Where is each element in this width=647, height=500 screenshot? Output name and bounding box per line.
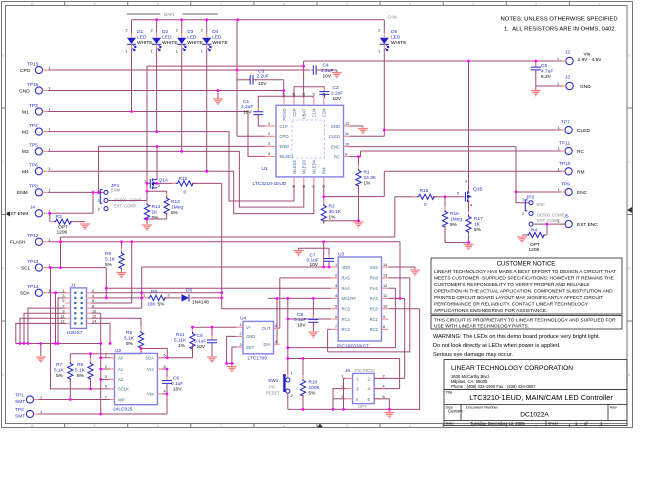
- svg-text:6: 6: [335, 315, 337, 319]
- wire TP1 to WP: [38, 399, 110, 401]
- svg-text:TP1: TP1: [15, 393, 24, 399]
- resistor R17: [468, 211, 470, 235]
- svg-text:EXT ENC: EXT ENC: [577, 222, 598, 228]
- svg-text:SMT: SMT: [15, 413, 25, 419]
- resistor R16 1Meg: [444, 197, 446, 210]
- wire Q1A to R12: [157, 182, 176, 184]
- svg-text:1%: 1%: [329, 215, 337, 221]
- wire RC to TP11: [361, 150, 566, 152]
- svg-text:WHITE: WHITE: [187, 40, 202, 46]
- ground at C5: [531, 91, 541, 96]
- svg-text:J6: J6: [345, 368, 350, 374]
- svg-text:SMT: SMT: [15, 399, 25, 405]
- wire J6 pin3: [333, 389, 346, 410]
- wire J6 pin2: [374, 377, 405, 379]
- svg-text:8: 8: [157, 2, 159, 6]
- svg-text:U1: U1: [262, 166, 268, 172]
- svg-text:J4: J4: [30, 205, 35, 211]
- wire ENM to U1 pin3: [99, 146, 266, 192]
- svg-text:17: 17: [282, 93, 286, 97]
- wire RA1: [389, 287, 396, 289]
- svg-text:TP5: TP5: [29, 143, 38, 149]
- wire C1 top to C1M: [258, 96, 313, 112]
- svg-text:0.1uF: 0.1uF: [171, 381, 183, 387]
- svg-text:1K: 1K: [152, 210, 159, 216]
- svg-text:U4: U4: [240, 316, 246, 322]
- wire RA2 to J6 pin2: [404, 298, 406, 378]
- svg-text:WHITE: WHITE: [391, 40, 406, 46]
- svg-text:M3: M3: [22, 149, 29, 155]
- wire J1 pin10 down to U2: [92, 312, 101, 314]
- ground on GND net: [213, 99, 223, 104]
- svg-text:LTC3210-1EUD: LTC3210-1EUD: [253, 181, 287, 187]
- svg-text:Date:: Date:: [446, 422, 455, 426]
- svg-text:LED: LED: [187, 35, 197, 41]
- svg-text:10V: 10V: [323, 74, 332, 80]
- ground at U4: [227, 367, 237, 372]
- svg-text:2: 2: [176, 29, 178, 33]
- wire net M2 to MLED2: [48, 132, 295, 201]
- svg-text:1206: 1206: [57, 230, 68, 236]
- svg-text:D1: D1: [137, 29, 143, 35]
- svg-text:TP3: TP3: [29, 103, 38, 109]
- svg-text:TP9: TP9: [561, 182, 570, 188]
- wire RC0 loop: [389, 309, 419, 410]
- svg-text:1: 1: [201, 50, 203, 54]
- svg-text:1N4148: 1N4148: [192, 300, 209, 306]
- svg-text:RA2: RA2: [370, 296, 379, 301]
- wire net FLASH: [48, 241, 132, 243]
- svg-text:6: 6: [105, 385, 107, 389]
- resistor R11 5.11K: [192, 327, 194, 332]
- wire Vin bus: [304, 60, 566, 62]
- wire R12 to RC5 riser: [221, 183, 223, 308]
- wire riser x287: [287, 298, 289, 374]
- capacitor C5 4.7uF: [535, 61, 537, 67]
- svg-text:2: 2: [335, 274, 337, 278]
- svg-text:GND: GND: [331, 124, 340, 129]
- wire D6 cathode: [192, 297, 222, 299]
- svg-text:1: 1: [335, 263, 337, 267]
- wire ENC: [350, 146, 517, 148]
- svg-text:11: 11: [345, 132, 349, 136]
- switch SW1 PIC RESET: [266, 372, 293, 399]
- wire SCL riser: [105, 268, 107, 298]
- LED D1: [127, 33, 136, 51]
- svg-text:7: 7: [220, 424, 222, 428]
- capacitor C7: [328, 255, 330, 266]
- svg-text:A1: A1: [118, 367, 124, 372]
- svg-text:CUSTOMER'S RESPONSIBILITY TO V: CUSTOMER'S RESPONSIBILITY TO VERIFY PROP…: [434, 282, 590, 288]
- wire J1 pin2 row: [92, 292, 222, 294]
- svg-text:R3: R3: [56, 214, 62, 220]
- wire JP2 pin3 to J5: [533, 223, 565, 225]
- svg-text:R8: R8: [151, 289, 157, 295]
- svg-text:8: 8: [157, 424, 159, 428]
- resistor R13: [166, 193, 168, 217]
- IC U1 LTC3210-1EUD: [253, 93, 350, 188]
- svg-text:1: 1: [558, 126, 560, 130]
- svg-text:4: 4: [164, 390, 166, 394]
- svg-text:10V: 10V: [197, 344, 206, 350]
- connector J3 GND: [557, 75, 591, 90]
- connector J2 Vin: [557, 50, 602, 65]
- wire CLED: [350, 135, 385, 137]
- title block: [444, 360, 627, 426]
- svg-text:2.9V - 4.5V: 2.9V - 4.5V: [578, 57, 603, 63]
- svg-text:TP11: TP11: [559, 141, 570, 147]
- resistor R15: [395, 196, 417, 198]
- svg-text:5%: 5%: [171, 210, 179, 216]
- svg-text:MEETS CUSTOMER -SUPPLIED SPECI: MEETS CUSTOMER -SUPPLIED SPECIFICATIONS;…: [434, 276, 614, 282]
- svg-text:2: 2: [240, 332, 242, 336]
- test point TP11 RC: [558, 141, 585, 155]
- svg-text:EXT COMP: EXT COMP: [537, 218, 560, 223]
- svg-text:10: 10: [345, 142, 349, 146]
- svg-text:Vss: Vss: [147, 392, 154, 397]
- svg-text:SDA: SDA: [145, 356, 154, 361]
- svg-text:1: 1: [48, 188, 50, 192]
- test point TP7 CLED: [558, 120, 591, 135]
- svg-text:1: 1: [40, 410, 42, 414]
- svg-text:R13: R13: [171, 199, 180, 205]
- svg-text:TP4: TP4: [29, 123, 38, 129]
- ground VSS: [410, 270, 420, 275]
- ground at C9: [207, 357, 217, 362]
- svg-text:ENM: ENM: [111, 188, 121, 193]
- svg-text:A0: A0: [118, 356, 124, 361]
- svg-text:8: 8: [164, 365, 166, 369]
- title block text: [446, 365, 617, 426]
- svg-text:2.2uF: 2.2uF: [241, 104, 253, 110]
- wire V+ rail: [193, 326, 237, 328]
- rail to R15: [61, 236, 395, 238]
- svg-text:R1: R1: [364, 170, 370, 176]
- wire D3 anode: [181, 20, 183, 34]
- svg-text:14: 14: [383, 263, 387, 267]
- svg-text:9: 9: [94, 424, 96, 428]
- svg-text:Phone : (408) 432-1900 Fax :: Phone : (408) 432-1900 Fax : (408) 434-0…: [451, 384, 536, 389]
- svg-text:5.1K: 5.1K: [75, 368, 86, 374]
- svg-text:4: 4: [383, 385, 385, 389]
- wire CPO riser: [236, 20, 238, 137]
- svg-text:C2P: C2P: [292, 108, 297, 116]
- wire net GND: [48, 90, 284, 92]
- svg-text:R11: R11: [176, 332, 185, 338]
- svg-text:1: 1: [557, 57, 559, 61]
- svg-text:3: 3: [335, 284, 337, 288]
- wire RA0 loop: [328, 278, 410, 352]
- svg-text:PIC: PIC: [269, 385, 276, 390]
- ground at R4: [517, 237, 527, 242]
- svg-text:1: 1: [558, 188, 560, 192]
- svg-text:6: 6: [383, 395, 385, 399]
- svg-text:2: 2: [378, 29, 380, 33]
- wire SW1 rail top: [288, 358, 400, 360]
- svg-text:TP13: TP13: [27, 259, 39, 265]
- wire to R3: [49, 213, 51, 221]
- svg-text:5: 5: [292, 185, 296, 187]
- wire pullup rail: [70, 353, 141, 355]
- wire D5 cathode to CLED: [383, 49, 385, 130]
- resistor R1: [358, 165, 360, 189]
- wire D1 cathode to M1: [131, 49, 133, 112]
- capacitor C4: [309, 69, 320, 71]
- svg-text:WP: WP: [118, 397, 125, 402]
- svg-text:RC1: RC1: [370, 317, 379, 322]
- svg-text:VBAT: VBAT: [302, 108, 307, 119]
- svg-text:10: 10: [383, 305, 387, 309]
- svg-text:MLED2: MLED2: [292, 159, 297, 174]
- svg-text:PRINTED CIRCUIT BOARD LAYOUT M: PRINTED CIRCUIT BOARD LAYOUT MAY SIGNIFI…: [434, 295, 603, 301]
- svg-text:1. ALL RESISTORS ARE IN OHMS,: 1. ALL RESISTORS ARE IN OHMS, 0402.: [504, 27, 617, 33]
- test point TP2 SMT: [15, 407, 42, 419]
- wire Vin to VBAT: [303, 61, 305, 98]
- svg-text:WARNING: The LEDs on this demo: WARNING: The LEDs on this demo board pro…: [433, 334, 600, 340]
- svg-text:RA5: RA5: [342, 276, 351, 281]
- svg-text:1: 1: [558, 167, 560, 171]
- test point TP1 SMT: [15, 393, 42, 405]
- svg-text:SW1: SW1: [268, 378, 279, 384]
- ground at R9: [117, 273, 127, 278]
- svg-text:RC: RC: [577, 149, 584, 155]
- svg-text:1: 1: [48, 238, 50, 242]
- test point TP13 SCL: [21, 259, 51, 272]
- svg-text:PERFORMANCE OR RELIABILITY. CO: PERFORMANCE OR RELIABILITY. CONTACT LINE…: [434, 302, 589, 308]
- resistor R2: [323, 200, 325, 224]
- resistor R10: [302, 375, 304, 399]
- svg-text:10V: 10V: [333, 96, 342, 102]
- wire VBAT branch: [147, 65, 304, 67]
- svg-text:3: 3: [105, 375, 107, 379]
- capacitor C9: [211, 336, 213, 347]
- svg-text:C6: C6: [173, 376, 179, 382]
- svg-text:1206: 1206: [529, 247, 540, 253]
- svg-text:USE WITH LINEAR TECHNOLOGY PAR: USE WITH LINEAR TECHNOLOGY PARTS.: [434, 324, 529, 330]
- svg-text:APPLICATIONS ENGINEERING FOR A: APPLICATIONS ENGINEERING FOR ASSISTANCE.: [434, 308, 547, 314]
- svg-text:SCLK: SCLK: [118, 387, 129, 392]
- svg-text:14: 14: [312, 93, 316, 97]
- capacitor C3: [246, 79, 257, 81]
- svg-text:R17: R17: [474, 216, 483, 222]
- svg-text:CPO: CPO: [20, 68, 31, 74]
- wire D3 cathode to M3: [181, 49, 183, 152]
- svg-text:1: 1: [40, 395, 42, 399]
- svg-text:D2: D2: [162, 29, 168, 35]
- svg-text:D3: D3: [187, 29, 193, 35]
- svg-text:MLED4: MLED4: [312, 159, 317, 174]
- svg-text:11: 11: [383, 294, 387, 298]
- svg-text:J2: J2: [565, 50, 570, 56]
- svg-text:RA1: RA1: [370, 286, 379, 291]
- svg-text:1: 1: [557, 82, 559, 86]
- LED D5: [380, 33, 389, 51]
- svg-text:RC5: RC5: [342, 307, 351, 312]
- svg-text:EXT COMP: EXT COMP: [114, 204, 137, 209]
- svg-text:Serious eye damage may occur.: Serious eye damage may occur.: [433, 352, 513, 358]
- svg-text:5: 5: [457, 192, 459, 196]
- wire D2 cathode to M2: [156, 49, 158, 132]
- svg-text:1: 1: [342, 374, 344, 378]
- svg-text:Tuesday, December 13, 2005: Tuesday, December 13, 2005: [470, 421, 525, 426]
- svg-text:7: 7: [335, 325, 337, 329]
- header J6 PIC PROG: [342, 368, 385, 409]
- resistor R6 5.1K: [90, 354, 92, 362]
- wire D1 anode: [131, 20, 133, 34]
- wire J6 pin4: [374, 388, 399, 390]
- svg-text:GND: GND: [580, 84, 591, 90]
- wire FLASH to U3 RA2 row: [399, 242, 401, 299]
- svg-text:1Meg: 1Meg: [450, 217, 462, 223]
- connector J4 EXT ENM: [7, 205, 51, 218]
- svg-text:SET: SET: [246, 345, 255, 350]
- resistor R5: [140, 327, 142, 351]
- svg-text:2.2uF: 2.2uF: [321, 68, 333, 74]
- svg-text:Custom: Custom: [448, 409, 463, 414]
- svg-text:10: 10: [31, 2, 35, 6]
- IC U2 24LC025: [105, 348, 166, 413]
- svg-text:R10: R10: [309, 380, 318, 386]
- wire RC0: [389, 308, 420, 310]
- svg-text:C9: C9: [197, 333, 203, 339]
- svg-text:C5: C5: [541, 63, 547, 69]
- svg-text:RC2: RC2: [370, 327, 379, 332]
- svg-text:1: 1: [240, 323, 242, 327]
- wire ENC riser: [516, 147, 529, 203]
- svg-text:6: 6: [283, 2, 285, 6]
- svg-text:R6: R6: [77, 362, 83, 368]
- wire to C7: [299, 248, 329, 258]
- svg-text:1: 1: [268, 122, 270, 126]
- wire VDD rail down to J1 pin8: [141, 267, 143, 308]
- resistor R16: [444, 206, 446, 230]
- wire J1 pin3: [58, 298, 66, 344]
- svg-text:1: 1: [105, 354, 107, 358]
- svg-text:R16: R16: [450, 211, 459, 217]
- svg-text:4: 4: [470, 204, 472, 208]
- svg-text:4: 4: [268, 152, 270, 156]
- svg-text:EXT ENM: EXT ENM: [7, 211, 28, 217]
- svg-text:7: 7: [312, 185, 316, 187]
- svg-text:10K: 10K: [147, 302, 156, 308]
- wire left riser: [60, 237, 62, 268]
- svg-text:MAIN: MAIN: [164, 12, 174, 17]
- svg-text:1: 1: [176, 50, 178, 54]
- svg-text:M4: M4: [22, 169, 29, 175]
- wire RA4: [106, 287, 331, 289]
- svg-text:ENC: ENC: [537, 202, 546, 207]
- warning text: [433, 334, 600, 358]
- svg-text:10V: 10V: [173, 387, 182, 393]
- wire Q1B source tie: [468, 200, 471, 202]
- svg-text:U3: U3: [338, 252, 344, 258]
- wire stub to ground: [40, 344, 42, 357]
- svg-text:SDA: SDA: [20, 291, 31, 297]
- svg-text:ENM: ENM: [17, 190, 28, 196]
- capacitor C8: [312, 315, 314, 326]
- svg-text:U2: U2: [115, 348, 121, 354]
- wire TP2 rail: [38, 413, 167, 415]
- svg-text:2.2uF: 2.2uF: [331, 91, 343, 97]
- svg-text:LED: LED: [162, 35, 172, 41]
- svg-text:2: 2: [268, 132, 270, 136]
- svg-text:R9: R9: [105, 251, 111, 257]
- svg-text:5.1K: 5.1K: [124, 336, 135, 342]
- svg-text:D5: D5: [391, 29, 397, 35]
- svg-text:R12: R12: [179, 176, 188, 182]
- svg-text:3: 3: [268, 142, 270, 146]
- svg-text:R5: R5: [126, 330, 132, 336]
- svg-text:4: 4: [335, 294, 337, 298]
- svg-text:CLED: CLED: [329, 134, 340, 139]
- wire J1 pin11: [20, 318, 66, 343]
- wire to R13: [147, 191, 167, 196]
- svg-text:JP2: JP2: [526, 195, 535, 201]
- connector J5 EXT ENC: [558, 214, 599, 229]
- test point TP14 SDA: [20, 284, 51, 297]
- svg-text:1: 1: [143, 293, 145, 297]
- svg-text:D4: D4: [212, 29, 218, 35]
- svg-text:C1M: C1M: [312, 108, 317, 117]
- svg-text:PGND: PGND: [282, 109, 287, 121]
- test point TP8 ENM: [17, 184, 51, 197]
- svg-text:MLED3: MLED3: [302, 159, 307, 174]
- svg-text:1: 1: [48, 87, 50, 91]
- svg-text:30.1K: 30.1K: [329, 209, 342, 215]
- wire SW1 bottom: [287, 393, 289, 409]
- svg-text:RM: RM: [322, 167, 327, 174]
- svg-text:WHITE: WHITE: [162, 40, 177, 46]
- test point TP10 RM: [558, 161, 585, 175]
- svg-text:TP12: TP12: [27, 233, 39, 239]
- svg-text:1: 1: [558, 147, 560, 151]
- wire Vin to Q1B drain: [468, 61, 470, 192]
- ground U1 pin12: [358, 129, 368, 134]
- svg-text:2: 2: [151, 29, 153, 33]
- ground at C4: [332, 73, 342, 78]
- svg-text:6: 6: [283, 424, 285, 428]
- frame center arrows: [6, 207, 632, 428]
- svg-text:B: B: [2, 267, 4, 271]
- wire D5 anode: [383, 20, 385, 34]
- svg-text:TP14: TP14: [27, 284, 39, 290]
- wire J1 pin7: [28, 308, 66, 343]
- ground at U1 GND pin: [350, 125, 364, 127]
- svg-text:OUT: OUT: [262, 326, 271, 331]
- resistor R7: [69, 358, 71, 382]
- wire R17 bottom: [468, 231, 470, 243]
- test point TP4 M2: [22, 123, 51, 135]
- svg-text:10V: 10V: [243, 110, 252, 116]
- test point TP6 M4: [22, 163, 51, 176]
- wire SDA riser: [55, 293, 57, 344]
- resistor R12: [172, 182, 196, 184]
- wire C1 to C1P: [258, 115, 265, 127]
- svg-text:1%: 1%: [178, 343, 186, 349]
- svg-text:Vin: Vin: [584, 52, 591, 58]
- svg-text:PIC PROG: PIC PROG: [355, 368, 375, 373]
- svg-text:13: 13: [383, 274, 387, 278]
- svg-text:SCL: SCL: [21, 265, 31, 271]
- svg-text:5%: 5%: [309, 391, 317, 397]
- svg-text:5%: 5%: [152, 215, 160, 221]
- svg-text:M2: M2: [22, 129, 29, 135]
- svg-text:24LC025: 24LC025: [113, 407, 133, 413]
- svg-text:4: 4: [409, 424, 411, 428]
- svg-text:Q1A: Q1A: [159, 178, 169, 184]
- wire RA0: [389, 277, 410, 279]
- wire net SCL: [48, 267, 107, 269]
